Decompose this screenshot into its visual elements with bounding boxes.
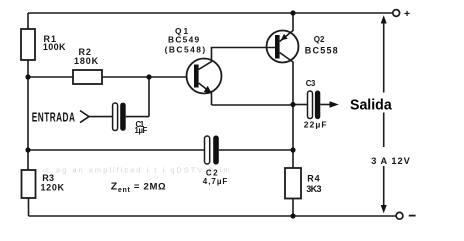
Q2 collector (280, 53, 293, 169)
wire left rail upper (27, 13, 29, 29)
node R1/R2 (25, 74, 30, 79)
wire Q1 emitter to node (212, 104, 294, 106)
wire C2 line right (219, 149, 293, 151)
wire R1 bottom to node (27, 60, 29, 170)
svg-text:4,7µF: 4,7µF (203, 177, 228, 186)
svg-text:3 A 12V: 3 A 12V (371, 156, 410, 166)
svg-text:(BC548): (BC548) (165, 44, 206, 54)
node C2 right (290, 147, 295, 152)
svg-text:ENTRADA: ENTRADA (32, 110, 76, 124)
wire base line left (28, 76, 73, 78)
wire base line right (102, 76, 187, 78)
terminal plus (393, 10, 400, 17)
svg-text:L ag an amplificad i t i qDS: L ag an amplificad i t i qDSTV C im (46, 166, 231, 175)
svg-text:100K: 100K (43, 42, 66, 52)
svg-text:BC549: BC549 (168, 34, 200, 44)
svg-text:BC558: BC558 (305, 45, 339, 55)
svg-text:R4: R4 (307, 174, 320, 184)
capacitor C2 (205, 136, 210, 164)
transistor Q2 (267, 31, 299, 63)
svg-text:+: + (404, 8, 410, 20)
wire input to C1 (89, 116, 113, 118)
resistor R2 (73, 70, 102, 84)
minus sign (409, 215, 416, 217)
capacitor C3 (308, 91, 313, 119)
wire C1 riser (148, 77, 150, 117)
node Q2 emitter / top rail (290, 10, 295, 15)
svg-text:Q 2: Q 2 (314, 35, 325, 44)
voltage indicator line (383, 23, 385, 93)
input chevron (80, 111, 89, 123)
transistor Q1 (187, 59, 222, 94)
svg-text:1µF: 1µF (135, 126, 149, 135)
wire C1 to riser (126, 116, 149, 118)
Q1 emitter (199, 83, 212, 105)
resistor R3 (22, 170, 36, 198)
svg-text:22µF: 22µF (304, 119, 328, 129)
wire C3 to arrow (320, 104, 331, 106)
node C2 left (25, 147, 30, 152)
wire C3 line (293, 104, 307, 106)
capacitor C1 (113, 103, 118, 131)
wire top rail (28, 12, 393, 14)
wire R4 bottom (292, 199, 294, 217)
node C1/base (146, 74, 151, 79)
svg-text:120K: 120K (41, 182, 65, 192)
terminal minus (396, 212, 403, 219)
resistor R1 (21, 29, 35, 60)
Q2 emitter (280, 13, 293, 42)
wire R3 bottom (28, 198, 30, 216)
Q1 collector (199, 48, 275, 70)
node output (290, 102, 295, 107)
resistor R4 (285, 168, 301, 199)
output arrow (330, 101, 339, 107)
svg-text:3K3: 3K3 (306, 184, 322, 194)
svg-text:C3: C3 (306, 79, 316, 88)
wire C2 line left (28, 149, 204, 151)
wire bottom rail (29, 215, 397, 217)
node R4 bottom (290, 213, 295, 218)
svg-text:180K: 180K (74, 56, 99, 66)
svg-text:Salida: Salida (350, 97, 393, 113)
